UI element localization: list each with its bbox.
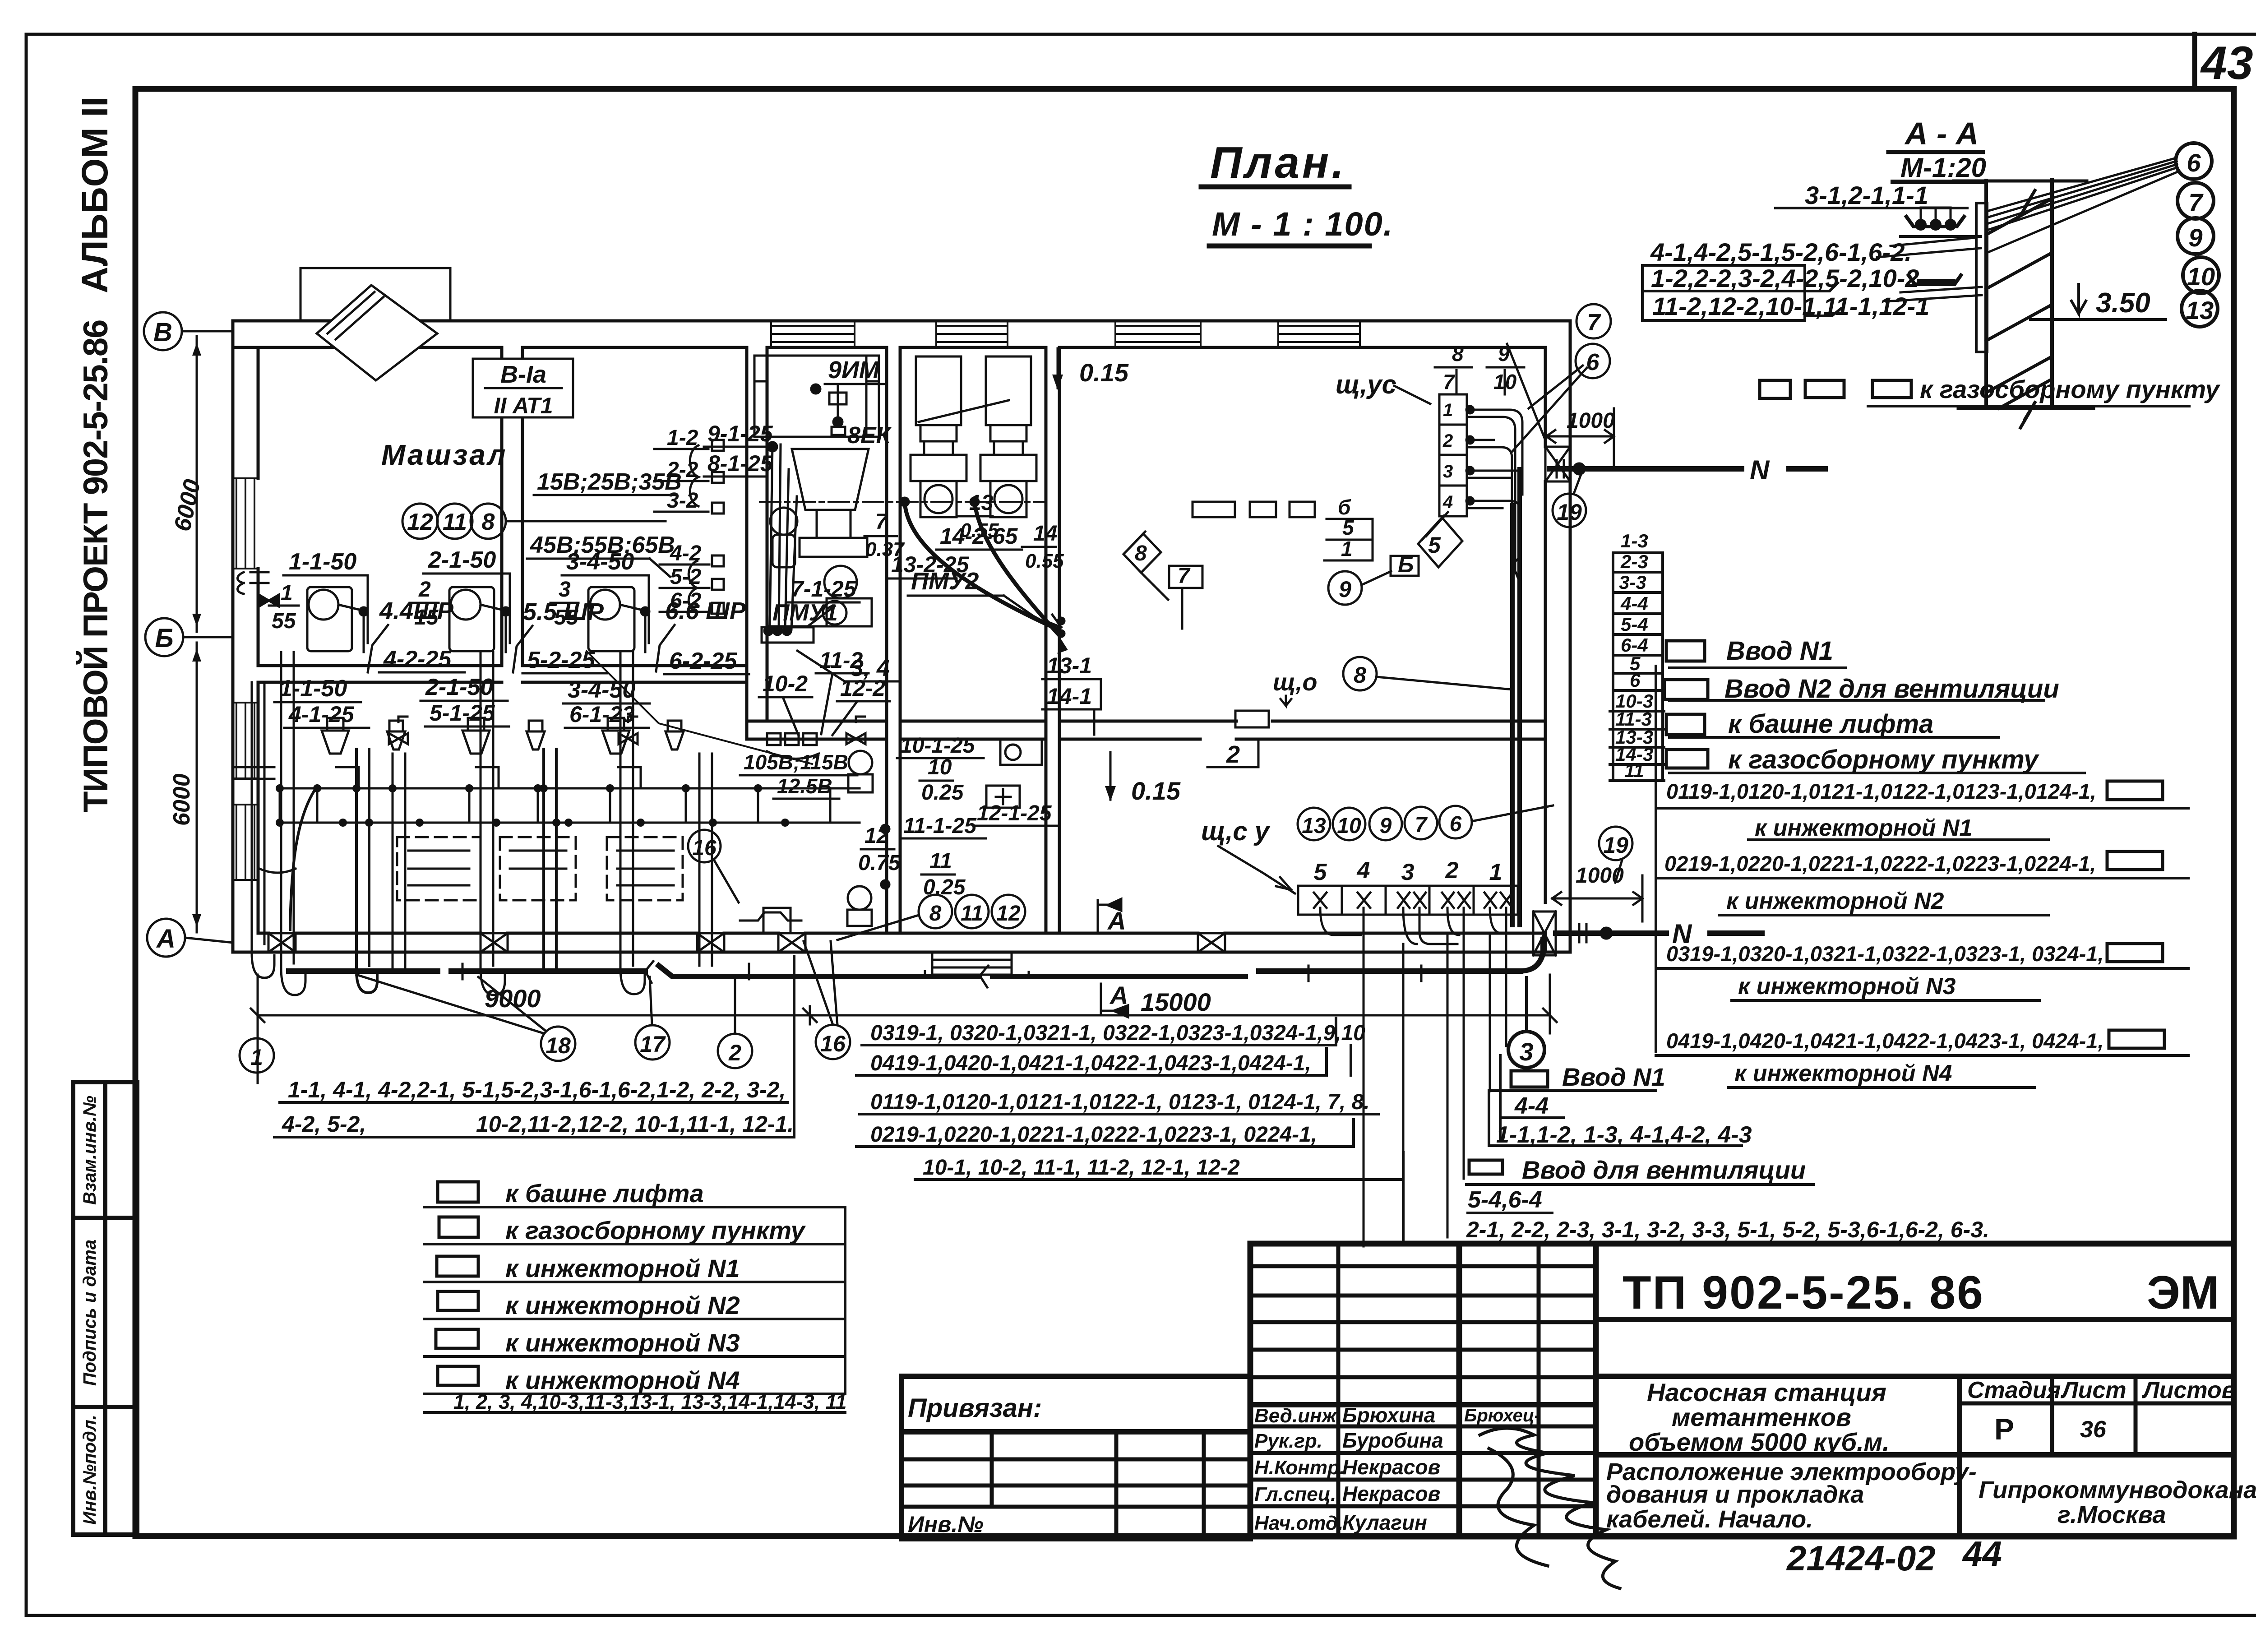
svg-text:13: 13: [2186, 296, 2214, 324]
svg-text:5-1-25: 5-1-25: [430, 700, 495, 726]
svg-text:9: 9: [2188, 223, 2202, 252]
mid wall right part: [747, 720, 887, 723]
svg-text:Взам.инв.№: Взам.инв.№: [80, 1096, 100, 1205]
small riser boxes strip + labels 1-2..6-2: [654, 440, 724, 614]
svg-text:Брюхина: Брюхина: [1342, 1403, 1435, 1427]
svg-text:12.5В: 12.5В: [777, 774, 832, 798]
svg-text:Подпись и дата: Подпись и дата: [80, 1240, 100, 1386]
svg-text:0.75: 0.75: [858, 851, 901, 875]
svg-text:3-4-50: 3-4-50: [566, 549, 634, 575]
svg-text:к башне лифта: к башне лифта: [1728, 709, 1933, 739]
svg-text:В-Iа: В-Iа: [500, 361, 546, 388]
svg-text:к башне лифта: к башне лифта: [505, 1179, 704, 1208]
svg-text:5-4: 5-4: [1621, 614, 1648, 635]
svg-text:ЭМ: ЭМ: [2147, 1267, 2219, 1319]
junction point right of two-pump room: [1057, 617, 1068, 653]
svg-text:N: N: [1750, 455, 1770, 485]
ЩУС label and panel: [1336, 370, 1396, 399]
diamond entrance top-left: [300, 268, 450, 380]
svg-text:4-2-25: 4-2-25: [383, 646, 452, 672]
svg-text:2: 2: [1445, 857, 1459, 884]
svg-text:105В;115В: 105В;115В: [744, 750, 848, 774]
svg-text:Некрасов: Некрасов: [1342, 1455, 1440, 1479]
svg-text:Листов: Листов: [2141, 1377, 2236, 1403]
svg-text:8ЕК: 8ЕК: [847, 422, 892, 449]
svg-text:1-1, 4-1, 4-2,2-1, 5-1,5-2,3-1: 1-1, 4-1, 4-2,2-1, 5-1,5-2,3-1,6-1,6-2,1…: [288, 1077, 786, 1102]
svg-text:к инжекторной N3: к инжекторной N3: [505, 1328, 740, 1357]
main cable run bottom: [289, 961, 1521, 987]
svg-text:1-1,1-2, 1-3, 4-1,4-2, 4-3: 1-1,1-2, 1-3, 4-1,4-2, 4-3: [1496, 1122, 1752, 1148]
svg-text:55: 55: [272, 609, 296, 633]
svg-text:12-1-25: 12-1-25: [977, 801, 1052, 825]
svg-text:Инв.№подл.: Инв.№подл.: [80, 1415, 100, 1525]
svg-text:к газосборному пункту: к газосборному пункту: [1920, 375, 2221, 403]
circles 13 10 9 7 6: [1298, 806, 1472, 840]
svg-text:8-1-25: 8-1-25: [707, 451, 773, 476]
interior vertical walls: [500, 347, 504, 666]
svg-text:2: 2: [1226, 741, 1240, 768]
wall break diagonal above ЩУС: [1507, 344, 1546, 441]
svg-text:1-1-50: 1-1-50: [279, 676, 347, 702]
cable exit to N line lower: through break: [1521, 933, 1762, 971]
svg-text:Насосная станция: Насосная станция: [1647, 1378, 1886, 1407]
section A-A title: [1900, 116, 1986, 183]
9-1-25 / 8-1-25 labels: [707, 421, 773, 476]
3.50 level mark: [2071, 284, 2086, 314]
svg-text:3-2: 3-2: [667, 489, 698, 513]
fraction labels 8/7 9/10 above panel: [1443, 342, 1517, 393]
equipment between 16 and 12: motor symbol: [740, 908, 801, 933]
top wall: [233, 319, 1570, 323]
pump group 2: [449, 587, 510, 652]
svg-text:Машзал: Машзал: [381, 439, 507, 471]
cables fan to circle 6: [1987, 158, 2178, 253]
embedded channel: [1976, 203, 1987, 352]
svg-text:Гипрокоммунводоканал: Гипрокоммунводоканал: [1979, 1476, 2256, 1504]
left columns: [1336, 1244, 1341, 1536]
svg-text:7-1-25: 7-1-25: [791, 576, 857, 602]
svg-text:17: 17: [640, 1032, 666, 1057]
svg-text:10-1-25: 10-1-25: [900, 734, 975, 758]
svg-text:1-2: 1-2: [667, 426, 698, 450]
svg-text:кабелей. Начало.: кабелей. Начало.: [1606, 1506, 1813, 1533]
10-1-25, 10/0.25, 11-1-25, 11/0.25, 12/0.75, 12-1-25 labels: [858, 734, 1052, 899]
top/bottom edge lines: [1954, 180, 2087, 183]
ШР labels: [379, 597, 746, 625]
svg-text:10-2,11-2,12-2, 10-1,11-1, 12-: 10-2,11-2,12-2, 10-1,11-1, 12-1.: [476, 1111, 794, 1137]
tank block: [754, 356, 879, 437]
svg-text:4-4: 4-4: [1620, 593, 1648, 614]
svg-text:Инв.№: Инв.№: [908, 1512, 984, 1537]
svg-text:4-2: 4-2: [670, 541, 702, 565]
svg-text:5: 5: [1428, 532, 1441, 558]
svg-text:10: 10: [2187, 262, 2215, 291]
pump group 3: [588, 587, 649, 652]
svg-text:16: 16: [692, 836, 717, 860]
svg-text:ТП 902-5-25. 86: ТП 902-5-25. 86: [1623, 1267, 1984, 1319]
svg-text:Ввод N2 для вентиляции: Ввод N2 для вентиляции: [1724, 674, 2059, 703]
svg-text:14: 14: [1033, 522, 1057, 546]
tray 2: [1909, 275, 1961, 284]
svg-text:Кулагин: Кулагин: [1342, 1511, 1427, 1534]
В-Iа / II АТ1 box: [473, 359, 573, 417]
svg-text:Н.Контр.: Н.Контр.: [1254, 1457, 1345, 1479]
svg-text:Вед.инж.: Вед.инж.: [1254, 1405, 1342, 1427]
equipment near 10/0.25: small pump circles: [847, 751, 889, 926]
small unit at left: [770, 508, 797, 535]
svg-text:щ,с у: щ,с у: [1201, 817, 1271, 846]
svg-text:А - А: А - А: [1904, 116, 1979, 151]
svg-text:1: 1: [1443, 400, 1453, 420]
svg-text:к газосборному пункту: к газосборному пункту: [505, 1216, 806, 1245]
dashed equipment rectangles: [397, 837, 683, 900]
top small pieces: [829, 393, 846, 404]
svg-text:9-1-25: 9-1-25: [707, 421, 773, 446]
1000 dim + N line (upper): [1567, 409, 1615, 433]
svg-text:11: 11: [929, 849, 952, 873]
svg-text:9: 9: [1380, 814, 1392, 838]
svg-text:В: В: [153, 318, 172, 347]
circled 6 and 7 at top right of plan: [1576, 344, 1610, 378]
window sill rects: [1193, 502, 1315, 517]
svg-text:Б: Б: [1398, 552, 1414, 577]
svg-text:0.55: 0.55: [1025, 550, 1064, 572]
vertical thin cable drops below panel: [1364, 929, 1506, 1246]
small terminal row + 105В;115В labels: [767, 733, 819, 759]
bottom wall: [233, 951, 1570, 954]
svg-text:6.6 ШР: 6.6 ШР: [665, 597, 746, 625]
cables out of ЩСУ cells down to main run: [1320, 908, 1515, 971]
svg-text:2: 2: [728, 1040, 741, 1065]
labels 1-1-50 2-1-50 3-4-50 (upper row): [289, 547, 634, 575]
к газосборному пункту (top right): [1760, 380, 2189, 406]
X break symbols in bottom wall: [268, 447, 1570, 955]
svg-text:5: 5: [1314, 859, 1327, 885]
circled 9 with leader: [1328, 571, 1362, 605]
svg-text:6: 6: [1586, 349, 1600, 375]
3, 4 label: [851, 655, 890, 681]
svg-text:2-3: 2-3: [1620, 551, 1648, 572]
svg-text:8: 8: [482, 509, 495, 535]
left wall windows: [233, 478, 258, 880]
svg-text:6-2-25: 6-2-25: [669, 648, 737, 674]
svg-text:6: 6: [2187, 148, 2201, 177]
diamond 5 + Б box + mini column: [1391, 512, 1462, 576]
svg-text:4-4: 4-4: [1514, 1093, 1549, 1119]
svg-text:0119-1,0120-1,0121-1,0122-1, 0: 0119-1,0120-1,0121-1,0122-1, 0123-1, 012…: [870, 1090, 1370, 1114]
trays from panel: [1466, 406, 1522, 701]
svg-text:к инжекторной N3: к инжекторной N3: [1738, 973, 1956, 1000]
svg-text:1: 1: [281, 581, 293, 605]
ticks on cable: [462, 964, 1421, 981]
svg-text:13-1: 13-1: [1047, 653, 1092, 678]
svg-text:к инжекторной N4: к инжекторной N4: [1734, 1060, 1952, 1087]
svg-text:2-2: 2-2: [666, 458, 698, 482]
vertical cable on right side of big room: [1512, 469, 1520, 925]
svg-text:8: 8: [1452, 342, 1464, 366]
svg-text:0.25: 0.25: [921, 781, 964, 805]
leader lines to circle 6 (upper right): [1512, 366, 1587, 451]
svg-text:Лист: Лист: [2060, 1377, 2127, 1403]
svg-text:3: 3: [1401, 859, 1415, 885]
svg-text:12: 12: [996, 902, 1021, 925]
svg-text:Б: Б: [155, 624, 173, 653]
svg-text:0219-1,0220-1,0221-1,0222-1,02: 0219-1,0220-1,0221-1,0222-1,0223-1, 0224…: [870, 1123, 1317, 1147]
svg-text:Ввод N1: Ввод N1: [1562, 1063, 1665, 1091]
svg-text:6: 6: [1450, 812, 1462, 836]
stairs at bottom wall: [932, 952, 1012, 975]
svg-text:7: 7: [2188, 188, 2204, 217]
funnels with valves: [322, 718, 684, 754]
svg-text:М - 1 : 100.: М - 1 : 100.: [1212, 205, 1393, 243]
tray 1 with cables: [1906, 217, 1964, 227]
svg-text:8: 8: [1135, 541, 1147, 565]
svg-text:19: 19: [1557, 500, 1582, 525]
circled 16 inside plan: [688, 830, 721, 862]
svg-text:14-1: 14-1: [1047, 684, 1092, 709]
svg-text:4.4ШР: 4.4ШР: [379, 597, 454, 625]
svg-text:щ,ус: щ,ус: [1336, 370, 1396, 399]
right part: [1596, 1317, 2234, 1322]
svg-text:к инжекторной N1: к инжекторной N1: [1755, 815, 1972, 841]
svg-text:0119-1,0120-1,0121-1,0122-1,01: 0119-1,0120-1,0121-1,0122-1,0123-1,0124-…: [1666, 779, 2096, 803]
fraction labels 1/55 2/15 3/55: [272, 578, 579, 633]
circles column right of A-A: [2176, 143, 2219, 327]
svg-text:5-2-25: 5-2-25: [527, 647, 595, 673]
svg-text:1-1-50: 1-1-50: [289, 549, 356, 575]
svg-text:3: 3: [1443, 462, 1453, 481]
svg-text:4: 4: [1442, 492, 1453, 512]
svg-text:4-1-25: 4-1-25: [288, 702, 355, 727]
svg-text:7: 7: [1415, 813, 1428, 837]
hatch: [1986, 199, 2052, 408]
svg-text:0419-1,0420-1,0421-1,0422-1,04: 0419-1,0420-1,0421-1,0422-1,0423-1,0424-…: [870, 1051, 1311, 1075]
svg-text:6-4: 6-4: [1621, 634, 1648, 656]
svg-text:11: 11: [961, 902, 983, 925]
labels 4-2-25 5-2-25 6-2-25: [383, 646, 737, 674]
svg-text:0.25: 0.25: [923, 875, 966, 899]
svg-text:А: А: [1109, 981, 1128, 1009]
"2" box under mid wall: [1226, 741, 1240, 768]
svg-text:Брюхец-: Брюхец-: [1464, 1406, 1540, 1425]
svg-text:к инжекторной N1: к инжекторной N1: [505, 1254, 740, 1282]
svg-text:12: 12: [407, 509, 433, 535]
outer: [1250, 1244, 2234, 1536]
svg-text:1-2,2-2,3-2,4-2,5-2,10-2: 1-2,2-2,3-2,4-2,5-2,10-2: [1651, 264, 1919, 292]
svg-text:3.50: 3.50: [2096, 287, 2150, 319]
svg-text:2: 2: [1442, 431, 1453, 451]
svg-text:0219-1,0220-1,0221-1,0222-1,02: 0219-1,0220-1,0221-1,0222-1,0223-1,0224-…: [1664, 851, 2096, 875]
svg-text:5-4,6-4: 5-4,6-4: [1468, 1187, 1542, 1213]
svg-text:3-1,2-1,1-1: 3-1,2-1,1-1: [1805, 181, 1928, 209]
svg-text:ПМУ1: ПМУ1: [772, 600, 838, 626]
svg-text:1: 1: [1489, 859, 1502, 885]
svg-text:Р: Р: [1994, 1412, 2014, 1446]
svg-text:0319-1, 0320-1,0321-1, 0322-1,: 0319-1, 0320-1,0321-1, 0322-1,0323-1,032…: [870, 1021, 1365, 1045]
svg-text:объемом 5000 куб.м.: объемом 5000 куб.м.: [1629, 1428, 1890, 1456]
svg-text:М-1:20: М-1:20: [1900, 153, 1986, 183]
10-2 11-2 12-2 cluster: [763, 648, 885, 701]
dash-dot axis line through rooms: [760, 501, 1046, 503]
descending pipe pairs with hooks: [252, 652, 712, 995]
svg-text:2-1-50: 2-1-50: [428, 547, 496, 573]
svg-text:План.: План.: [1210, 138, 1346, 187]
left rows: [1250, 1264, 1596, 1268]
svg-text:6-1-23: 6-1-23: [569, 702, 635, 727]
svg-text:15000: 15000: [1141, 988, 1211, 1016]
svg-text:16: 16: [820, 1031, 846, 1056]
svg-text:Рук.гр.: Рук.гр.: [1254, 1430, 1322, 1452]
svg-text:г.Москва: г.Москва: [2057, 1501, 2166, 1528]
right wall: [1569, 321, 1572, 952]
signature scribbles: [1480, 1428, 1620, 1588]
svg-text:к инжекторной N2: к инжекторной N2: [1726, 888, 1944, 914]
щ,о label: [1273, 669, 1317, 696]
mid wall left part: [258, 664, 502, 667]
svg-text:7: 7: [1443, 370, 1456, 393]
extra pipes and stubs lower-left: [233, 749, 641, 993]
svg-text:Некрасов: Некрасов: [1342, 1482, 1440, 1505]
svg-text:8: 8: [1354, 662, 1366, 688]
cables inside two-pump room: [905, 502, 1061, 634]
svg-text:44: 44: [1962, 1534, 2002, 1573]
svg-text:дования и прокладка: дования и прокладка: [1606, 1481, 1864, 1508]
svg-text:Ввод для вентиляции: Ввод для вентиляции: [1522, 1156, 1806, 1184]
svg-text:к инжекторной N2: к инжекторной N2: [505, 1291, 740, 1319]
cable riser labels 15В;25В;35В / 45В;55В;65В: [530, 469, 682, 558]
svg-text:1000: 1000: [1567, 409, 1615, 433]
svg-text:0.15: 0.15: [1079, 358, 1129, 387]
top wall windows (triple lines): [771, 323, 1360, 346]
svg-text:1, 2, 3, 4,10-3,11-3,13-1, 13-: 1, 2, 3, 4,10-3,11-3,13-1, 13-3,14-1,14-…: [453, 1390, 846, 1413]
svg-text:10-2: 10-2: [763, 671, 808, 696]
svg-text:9ИМ: 9ИМ: [828, 356, 880, 384]
diamond 8 + box 7: [1123, 532, 1202, 588]
leader from tray to circles: [1877, 238, 1981, 257]
svg-text:9: 9: [1339, 577, 1351, 602]
svg-text:3-3: 3-3: [1619, 572, 1646, 593]
sheet number cell 43: [2195, 34, 2253, 89]
circles 8 11 12 lower: [919, 895, 1025, 928]
svg-text:14-2-65: 14-2-65: [940, 523, 1018, 549]
title block texts: [1254, 1267, 2256, 1534]
svg-text:8: 8: [929, 902, 942, 925]
svg-text:5.5 ШР: 5.5 ШР: [523, 598, 604, 625]
break marks: [2020, 190, 2035, 216]
svg-text:1-3: 1-3: [1621, 530, 1648, 551]
svg-text:II АТ1: II АТ1: [494, 393, 553, 418]
svg-text:Привязан:: Привязан:: [908, 1393, 1042, 1423]
А section markers: [1098, 899, 1128, 1017]
circled 8 with leader: [1343, 657, 1377, 690]
svg-text:0319-1,0320-1,0321-1,0322-1,03: 0319-1,0320-1,0321-1,0322-1,0323-1, 0324…: [1666, 942, 2104, 966]
svg-text:Нач.отд.: Нач.отд.: [1254, 1512, 1343, 1534]
svg-text:7: 7: [1587, 310, 1601, 336]
21424-02 44: [1786, 1534, 2002, 1578]
svg-text:7: 7: [875, 510, 888, 534]
svg-text:10: 10: [1337, 814, 1361, 838]
svg-text:к газосборному пункту: к газосборному пункту: [1728, 745, 2039, 774]
Машзал: [381, 439, 507, 471]
svg-text:11-2: 11-2: [819, 648, 863, 673]
svg-text:18: 18: [546, 1033, 571, 1058]
0.15 arrow lower: [1105, 752, 1116, 801]
13-1 / 14-1 labels below: [1047, 653, 1092, 709]
svg-text:ТИПОВОЙ ПРОЕКТ 902-5-25.86: ТИПОВОЙ ПРОЕКТ 902-5-25.86: [76, 320, 115, 812]
svg-text:36: 36: [2080, 1416, 2107, 1443]
diagonal strike on bases: [919, 400, 1009, 422]
svg-text:5-2: 5-2: [670, 565, 702, 589]
left strip labels: [80, 1096, 100, 1525]
svg-text:12-2: 12-2: [840, 676, 885, 701]
circles 12 11 8 in маш hall: [402, 504, 666, 539]
svg-text:Ввод N1: Ввод N1: [1726, 636, 1833, 666]
svg-text:АЛЬБОМ II: АЛЬБОМ II: [74, 97, 116, 293]
svg-text:7: 7: [1178, 564, 1191, 588]
svg-text:11-2,12-2,10-1,11-1,12-1: 11-2,12-2,10-1,11-1,12-1: [1652, 292, 1929, 320]
svg-text:4: 4: [1357, 857, 1370, 884]
svg-text:43: 43: [2200, 37, 2253, 89]
svg-text:10-1, 10-2, 11-1, 11-2, 12-1,: 10-1, 10-2, 11-1, 11-2, 12-1, 12-2: [923, 1156, 1240, 1180]
svg-text:4-2, 5-2,: 4-2, 5-2,: [282, 1111, 366, 1137]
1000 dim lower + 19: [1576, 864, 1624, 888]
axis circle В: [144, 312, 185, 957]
svg-text:6000: 6000: [169, 773, 195, 826]
valve at left wall: [238, 572, 279, 606]
svg-text:21424-02: 21424-02: [1786, 1538, 1936, 1578]
svg-text:щ,о: щ,о: [1273, 669, 1317, 696]
misc labels lower-left: [288, 700, 635, 727]
svg-text:Стадия: Стадия: [1967, 1377, 2061, 1403]
left attachment strip table: [73, 1082, 137, 1535]
pump group 1: [307, 587, 368, 652]
0.15 arrow upper: [1052, 348, 1063, 390]
svg-text:0419-1,0420-1,0421-1,0422-1,04: 0419-1,0420-1,0421-1,0422-1,0423-1, 0424…: [1666, 1029, 2104, 1053]
left wall: [231, 321, 235, 952]
svg-text:Буробина: Буробина: [1342, 1429, 1443, 1452]
vertical big texts: [74, 97, 116, 812]
svg-text:4-1,4-2,5-1,5-2,6-1,6-2.: 4-1,4-2,5-1,5-2,6-1,6-2.: [1650, 238, 1912, 266]
svg-text:А: А: [1107, 907, 1126, 935]
svg-text:11-1-25: 11-1-25: [903, 814, 977, 838]
svg-text:2-1, 2-2, 2-3, 3-1, 3-2, 3-3,: 2-1, 2-2, 2-3, 3-1, 3-2, 3-3, 5-1, 5-2, …: [1466, 1217, 1989, 1242]
wires slanting down to ПМУ1: [770, 444, 797, 629]
svg-text:1: 1: [250, 1045, 263, 1070]
svg-text:3: 3: [1519, 1037, 1533, 1066]
svg-text:метантенков: метантенков: [1672, 1403, 1851, 1431]
lower row labels 1-1-50 2-1-50 3-4-50: [279, 674, 635, 703]
svg-text:А: А: [156, 924, 176, 953]
bowtie valves: [389, 717, 865, 744]
manifold lines with junction dots: [280, 788, 860, 823]
circled 19 upper: [1553, 494, 1586, 527]
svg-text:13: 13: [1302, 814, 1326, 838]
bottom circles with leaders: [240, 1025, 850, 1073]
wall verticals: [1984, 180, 1988, 406]
svg-text:2-1-50: 2-1-50: [425, 674, 493, 700]
svg-text:11: 11: [443, 509, 467, 535]
svg-text:19: 19: [1603, 833, 1628, 858]
cable code rows left of A-A: [1650, 181, 1929, 320]
svg-text:Гл.спец.: Гл.спец.: [1254, 1483, 1336, 1505]
axis lines and dimension chain 6000/6000: [182, 331, 233, 943]
svg-text:0.15: 0.15: [1131, 777, 1181, 805]
